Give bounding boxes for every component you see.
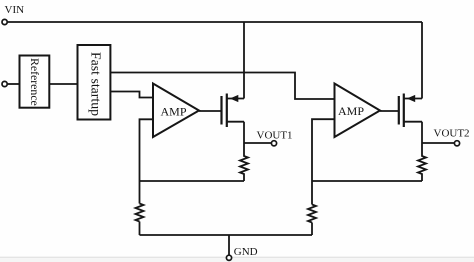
wire feedback 1 (R1 bottom to node A) [140, 180, 245, 182]
resistor R1 (VOUT1 to feedback node A) [240, 143, 248, 181]
terminal GND [226, 255, 231, 260]
wire U2 inverting input from feedback node B [312, 119, 335, 204]
wire feedback 2 (R3 bottom to node B) [312, 180, 422, 182]
scan artifact line bottom [0, 257, 474, 259]
wire GND stub [228, 235, 230, 255]
wire U1 output to M1 gate [199, 110, 222, 112]
wire reference input [7, 83, 20, 85]
op-amp U1 [153, 84, 199, 138]
wire R4 bottom to GND rail [311, 223, 313, 236]
transistor M1 drain lead [227, 121, 244, 123]
op-amp U2 [335, 84, 381, 138]
terminal VOUT1 [271, 141, 276, 146]
wire M1 drain to VOUT1 node [243, 122, 245, 143]
svg-text:AMP: AMP [161, 105, 187, 119]
wire GND rail [140, 234, 313, 236]
wire Fast startup to U1 noninverting input [110, 92, 153, 98]
wire VIN rail [7, 21, 422, 23]
resistor R4 (node B to GND) [308, 205, 316, 223]
transistor M1 source arrow [230, 95, 239, 102]
svg-text:VOUT2: VOUT2 [434, 128, 470, 140]
block Reference [20, 56, 50, 108]
wire VOUT1 node to terminal [244, 142, 272, 144]
resistor R3 (VOUT2 to feedback node B) [418, 143, 426, 181]
transistor M2 source arrow [407, 95, 415, 102]
svg-text:VIN: VIN [5, 4, 25, 16]
svg-text:GND: GND [234, 246, 258, 258]
wire M2 drain to VOUT2 node [421, 122, 423, 143]
transistor M2 drain lead [404, 121, 422, 123]
svg-text:VOUT1: VOUT1 [257, 130, 293, 142]
wire VIN rail to M1 source [243, 22, 245, 99]
svg-text:Reference: Reference [28, 58, 42, 106]
terminal VIN [2, 19, 7, 24]
transistor M1 gate bar [220, 96, 222, 125]
resistor R2 (node A to GND) [136, 204, 144, 222]
transistor M2 source lead [404, 98, 422, 100]
block Fast startup [78, 45, 111, 120]
wire VIN rail to M2 source [421, 22, 423, 99]
terminal VOUT2 [454, 141, 459, 146]
transistor M1 source lead [227, 98, 244, 100]
svg-text:AMP: AMP [338, 104, 364, 118]
wire U1 inverting input from feedback node A [140, 119, 154, 203]
transistor M2 gate bar [398, 96, 400, 125]
wire R2 bottom to GND rail [139, 222, 141, 236]
terminal reference input [2, 81, 7, 86]
transistor M2 channel bar [403, 94, 405, 128]
transistor M1 channel bar [226, 94, 228, 128]
wire Fast startup to U2 noninverting input [110, 73, 334, 100]
wire U2 output to M2 gate [380, 110, 399, 112]
wire VOUT2 node to terminal [422, 142, 455, 144]
wire Reference to Fast startup [49, 83, 77, 85]
svg-text:Fast startup: Fast startup [88, 52, 103, 116]
